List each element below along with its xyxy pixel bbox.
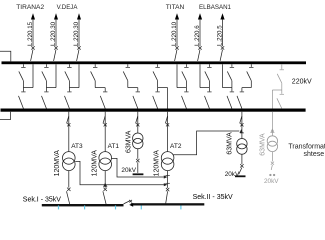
svg-text:120MVA: 120MVA xyxy=(54,150,61,177)
svg-text:Sek.I - 35kV: Sek.I - 35kV xyxy=(23,196,61,203)
svg-text:L.220.30: L.220.30 xyxy=(50,21,57,46)
svg-text:L.220.15: L.220.15 xyxy=(27,21,34,46)
svg-text:63MVA: 63MVA xyxy=(227,132,234,155)
svg-text:Transformatori: Transformatori xyxy=(288,143,325,150)
svg-text:20kV: 20kV xyxy=(121,167,136,174)
svg-text:shtese: shtese xyxy=(304,151,325,158)
svg-text:120MVA: 120MVA xyxy=(153,150,160,177)
svg-text:L.220.5: L.220.5 xyxy=(217,25,224,46)
svg-text:Sek.II - 35kV: Sek.II - 35kV xyxy=(193,194,233,201)
svg-text:63MVA: 63MVA xyxy=(260,133,267,156)
svg-text:L.220.30: L.220.30 xyxy=(73,21,80,46)
svg-text:20kV: 20kV xyxy=(225,171,240,178)
svg-text:L.220.6: L.220.6 xyxy=(194,25,201,46)
svg-text:AT3: AT3 xyxy=(71,143,83,150)
svg-text:AT2: AT2 xyxy=(170,143,182,150)
svg-text:AT1: AT1 xyxy=(108,143,120,150)
svg-text:63MVA: 63MVA xyxy=(126,130,133,153)
svg-text:V.DEJA: V.DEJA xyxy=(57,4,79,11)
svg-text:220kV: 220kV xyxy=(292,79,312,86)
svg-text:120MVA: 120MVA xyxy=(92,150,99,177)
svg-text:20kV: 20kV xyxy=(264,178,279,185)
svg-text:L.220.10: L.220.10 xyxy=(171,21,178,46)
svg-text:TITAN: TITAN xyxy=(166,4,185,11)
svg-text:ELBASAN1: ELBASAN1 xyxy=(199,4,232,11)
svg-text:TIRANA2: TIRANA2 xyxy=(16,4,44,11)
